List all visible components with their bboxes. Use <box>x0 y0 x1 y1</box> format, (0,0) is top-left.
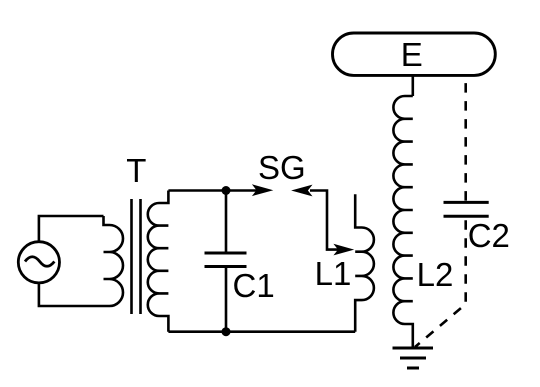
svg-text:C1: C1 <box>233 267 275 304</box>
AC source sine wave <box>25 257 54 267</box>
transformer T primary winding <box>104 216 124 306</box>
svg-text:E: E <box>401 36 423 73</box>
svg-text:SG: SG <box>258 149 306 186</box>
terminal E stadium <box>333 33 496 75</box>
wire: source loop left/top to transformer primary top <box>39 216 104 242</box>
wire arrow: L1 adjustable tap <box>333 244 354 256</box>
inductor L2 <box>393 96 412 348</box>
wire: E to L2 <box>411 75 414 96</box>
svg-text:T: T <box>126 152 146 189</box>
node: C1 bottom junction <box>222 327 231 336</box>
wire: bottom rail transformer to L1 <box>168 330 355 333</box>
AC source G1 <box>18 242 59 283</box>
spark gap SG right electrode arrow <box>291 185 341 250</box>
transformer T core <box>132 199 141 314</box>
inductor L1 <box>355 194 374 331</box>
capacitor C1 <box>205 191 247 332</box>
wire: top rail secondary to spark gap <box>168 189 257 192</box>
capacitor C2 dashed wire from E <box>464 79 467 202</box>
ground <box>393 348 434 368</box>
spark gap SG left electrode arrow <box>252 184 273 196</box>
svg-text:C2: C2 <box>468 217 510 254</box>
wire: source loop left/bottom to transformer primary bottom <box>39 283 104 306</box>
svg-text:L2: L2 <box>417 256 454 293</box>
svg-text:L1: L1 <box>315 255 352 292</box>
capacitor C2 dashed wire to ground <box>415 216 466 347</box>
node: C1 top junction <box>222 186 231 195</box>
transformer T secondary winding <box>148 191 169 332</box>
capacitor C2 <box>444 202 489 216</box>
